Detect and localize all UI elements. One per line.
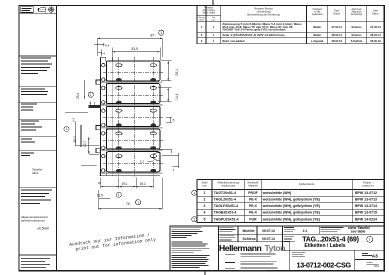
svg-text:Mueller: Mueller [243,229,256,233]
svg-text:25,4: 25,4 [76,93,80,99]
svg-text:2: 2 [204,198,206,202]
svg-text:TAGB20x51-4: TAGB20x51-4 [214,211,237,215]
svg-text:16: 16 [98,181,102,185]
svg-text:BPW 13-0715: BPW 13-0715 [355,211,377,215]
svg-text:weiss/white (WH), gelb/yellow: weiss/white (WH), gelb/yellow (YE) [262,211,320,215]
svg-text:Start cut added: Start cut added [222,39,244,43]
svg-text:5: 5 [173,118,175,122]
svg-text:4,4: 4,4 [101,52,106,56]
svg-text:table: table [32,171,39,175]
svg-text:Etiketten / Labels: Etiketten / Labels [304,243,345,249]
svg-text:Datum: Datum [372,12,379,15]
svg-text:Schless: Schless [243,237,256,241]
svg-text:Hellermann: Hellermann [219,243,262,253]
svg-text:Blatt: Blatt [199,18,204,21]
svg-text:1: 1 [213,25,215,29]
svg-text:Datum: Datum [333,12,340,15]
svg-text:1:1: 1:1 [303,229,308,233]
svg-text:Date: Date [334,10,340,13]
svg-text:product type: product type [222,185,236,188]
svg-text:PE-X: PE-X [249,211,258,215]
svg-text:13-0712-002-CSG: 13-0712-002-CSG [297,260,352,269]
svg-text:1: 1 [201,25,203,29]
svg-text:TAGPU20x51-4: TAGPU20x51-4 [214,217,239,221]
svg-text:2: 2 [201,33,203,37]
svg-text:PROF: PROF [248,191,257,195]
svg-text:PUR: PUR [249,217,257,221]
svg-text:Aend.-Stand: Aend.-Stand [202,12,215,15]
svg-text:6,4: 6,4 [105,43,110,47]
svg-text:weiss/white (WH), gelb/yellow: weiss/white (WH), gelb/yellow (YE) [262,217,320,221]
svg-text:1: 1 [213,33,215,37]
svg-text:general tolerances: general tolerances [21,218,45,222]
svg-text:3: 3 [204,204,206,208]
svg-text:19,1: 19,1 [140,182,146,186]
svg-text:Zeile 4 (TAGPU20x51-4) GPV 14-: Zeile 4 (TAGPU20x51-4) GPV 14-0224 hinzu… [222,33,285,37]
svg-text:Schless: Schless [351,25,362,29]
svg-text:28.03.14: 28.03.14 [370,33,381,37]
svg-text:Approuvé: Approuvé [351,11,362,14]
svg-text:-: - [22,96,23,100]
svg-text:1: 1 [66,127,68,131]
svg-text:Weller: Weller [313,33,321,37]
svg-text:L.Zepelak: L.Zepelak [311,39,324,43]
svg-text:TAGL20x51-4: TAGL20x51-4 [214,198,236,202]
svg-text:BPW 14-0224: BPW 14-0224 [355,217,377,221]
svg-text:3,2: 3,2 [140,160,145,164]
svg-text:1: 1 [204,191,206,195]
svg-text:09.07.13: 09.07.13 [262,229,275,233]
svg-text:on the: on the [314,11,321,14]
svg-text:19,1: 19,1 [121,182,127,186]
svg-text:-: - [22,78,23,82]
svg-text:28.03.14: 28.03.14 [332,33,343,37]
svg-text:Farbe/colours: Farbe/colours [299,183,315,186]
svg-text:project no.: project no. [363,185,375,188]
svg-text:3: 3 [193,217,195,221]
svg-text:1: 1 [193,191,195,195]
svg-text:1: 1 [213,39,215,43]
svg-text:08.00.19: 08.00.19 [370,39,381,43]
svg-text:weiss/white (WH): weiss/white (WH) [262,191,292,195]
svg-text:87: 87 [151,34,155,38]
svg-text:weiss/white (WH), gelb/yellow: weiss/white (WH), gelb/yellow (YE) [262,204,320,208]
svg-text:27.03.14: 27.03.14 [332,25,343,29]
svg-text:TAGLF20x51-4: TAGLF20x51-4 [214,204,238,208]
svg-text:see table: see table [351,230,366,234]
svg-text:±0,5mm: ±0,5mm [37,227,49,231]
svg-text:part: part [212,18,216,21]
svg-text:1: 1 [369,238,371,242]
svg-text:5: 5 [204,217,206,221]
svg-text:1: 1 [90,93,92,97]
svg-text:09.07.13: 09.07.13 [262,237,275,241]
svg-text:12,7: 12,7 [83,141,87,147]
svg-text:TAG687 Teil 14 Perfor.gelb (YE: TAG687 Teil 14 Perfor.gelb (YE) verschob… [222,28,286,32]
svg-text:1: 1 [160,31,162,35]
svg-text:Approved: Approved [351,8,362,11]
svg-text:Date: Date [373,10,379,13]
svg-text:A3: A3 [372,254,378,259]
svg-text:S.Seifrek: S.Seifrek [351,39,363,43]
svg-text:81,5: 81,5 [132,47,139,51]
svg-text:BPW 13-0714: BPW 13-0714 [355,204,377,208]
svg-text:Weller: Weller [313,25,321,29]
svg-text:2: 2 [173,168,175,172]
svg-text:weiss/white (WH), gelb/yellow: weiss/white (WH), gelb/yellow (YE) [262,198,320,202]
svg-text:TAGT20x51-4: TAGT20x51-4 [214,191,236,195]
svg-text:6,4: 6,4 [71,118,75,122]
svg-text:4: 4 [204,211,206,215]
svg-text:3: 3 [201,39,203,43]
svg-text:Schless: Schless [351,33,362,37]
svg-text:row: row [202,185,206,188]
svg-text:1/1: 1/1 [374,263,379,267]
svg-text:PE-X: PE-X [249,204,258,208]
svg-text:PE-X: PE-X [249,198,258,202]
svg-text:20,1: 20,1 [175,69,179,76]
svg-text:08.00.19: 08.00.19 [332,39,343,43]
svg-text:14,4: 14,4 [175,93,179,100]
svg-text:BPW 13-0713: BPW 13-0713 [355,198,377,202]
svg-text:BPW 13-0712: BPW 13-0712 [355,191,377,195]
svg-text:Beschreibung der Aenderung: Beschreibung der Aenderung [247,14,280,17]
svg-text:Geaendert: Geaendert [312,13,323,16]
svg-text:Material: Material [249,185,258,188]
svg-text:13,5: 13,5 [97,193,103,197]
svg-text:Genehmigt: Genehmigt [351,13,363,16]
svg-text:75: 75 [126,202,130,206]
svg-text:1: 1 [137,200,139,204]
svg-text:31.03.14: 31.03.14 [370,25,381,29]
svg-text:1: 1 [118,193,120,197]
svg-text:Tyton: Tyton [265,243,286,253]
